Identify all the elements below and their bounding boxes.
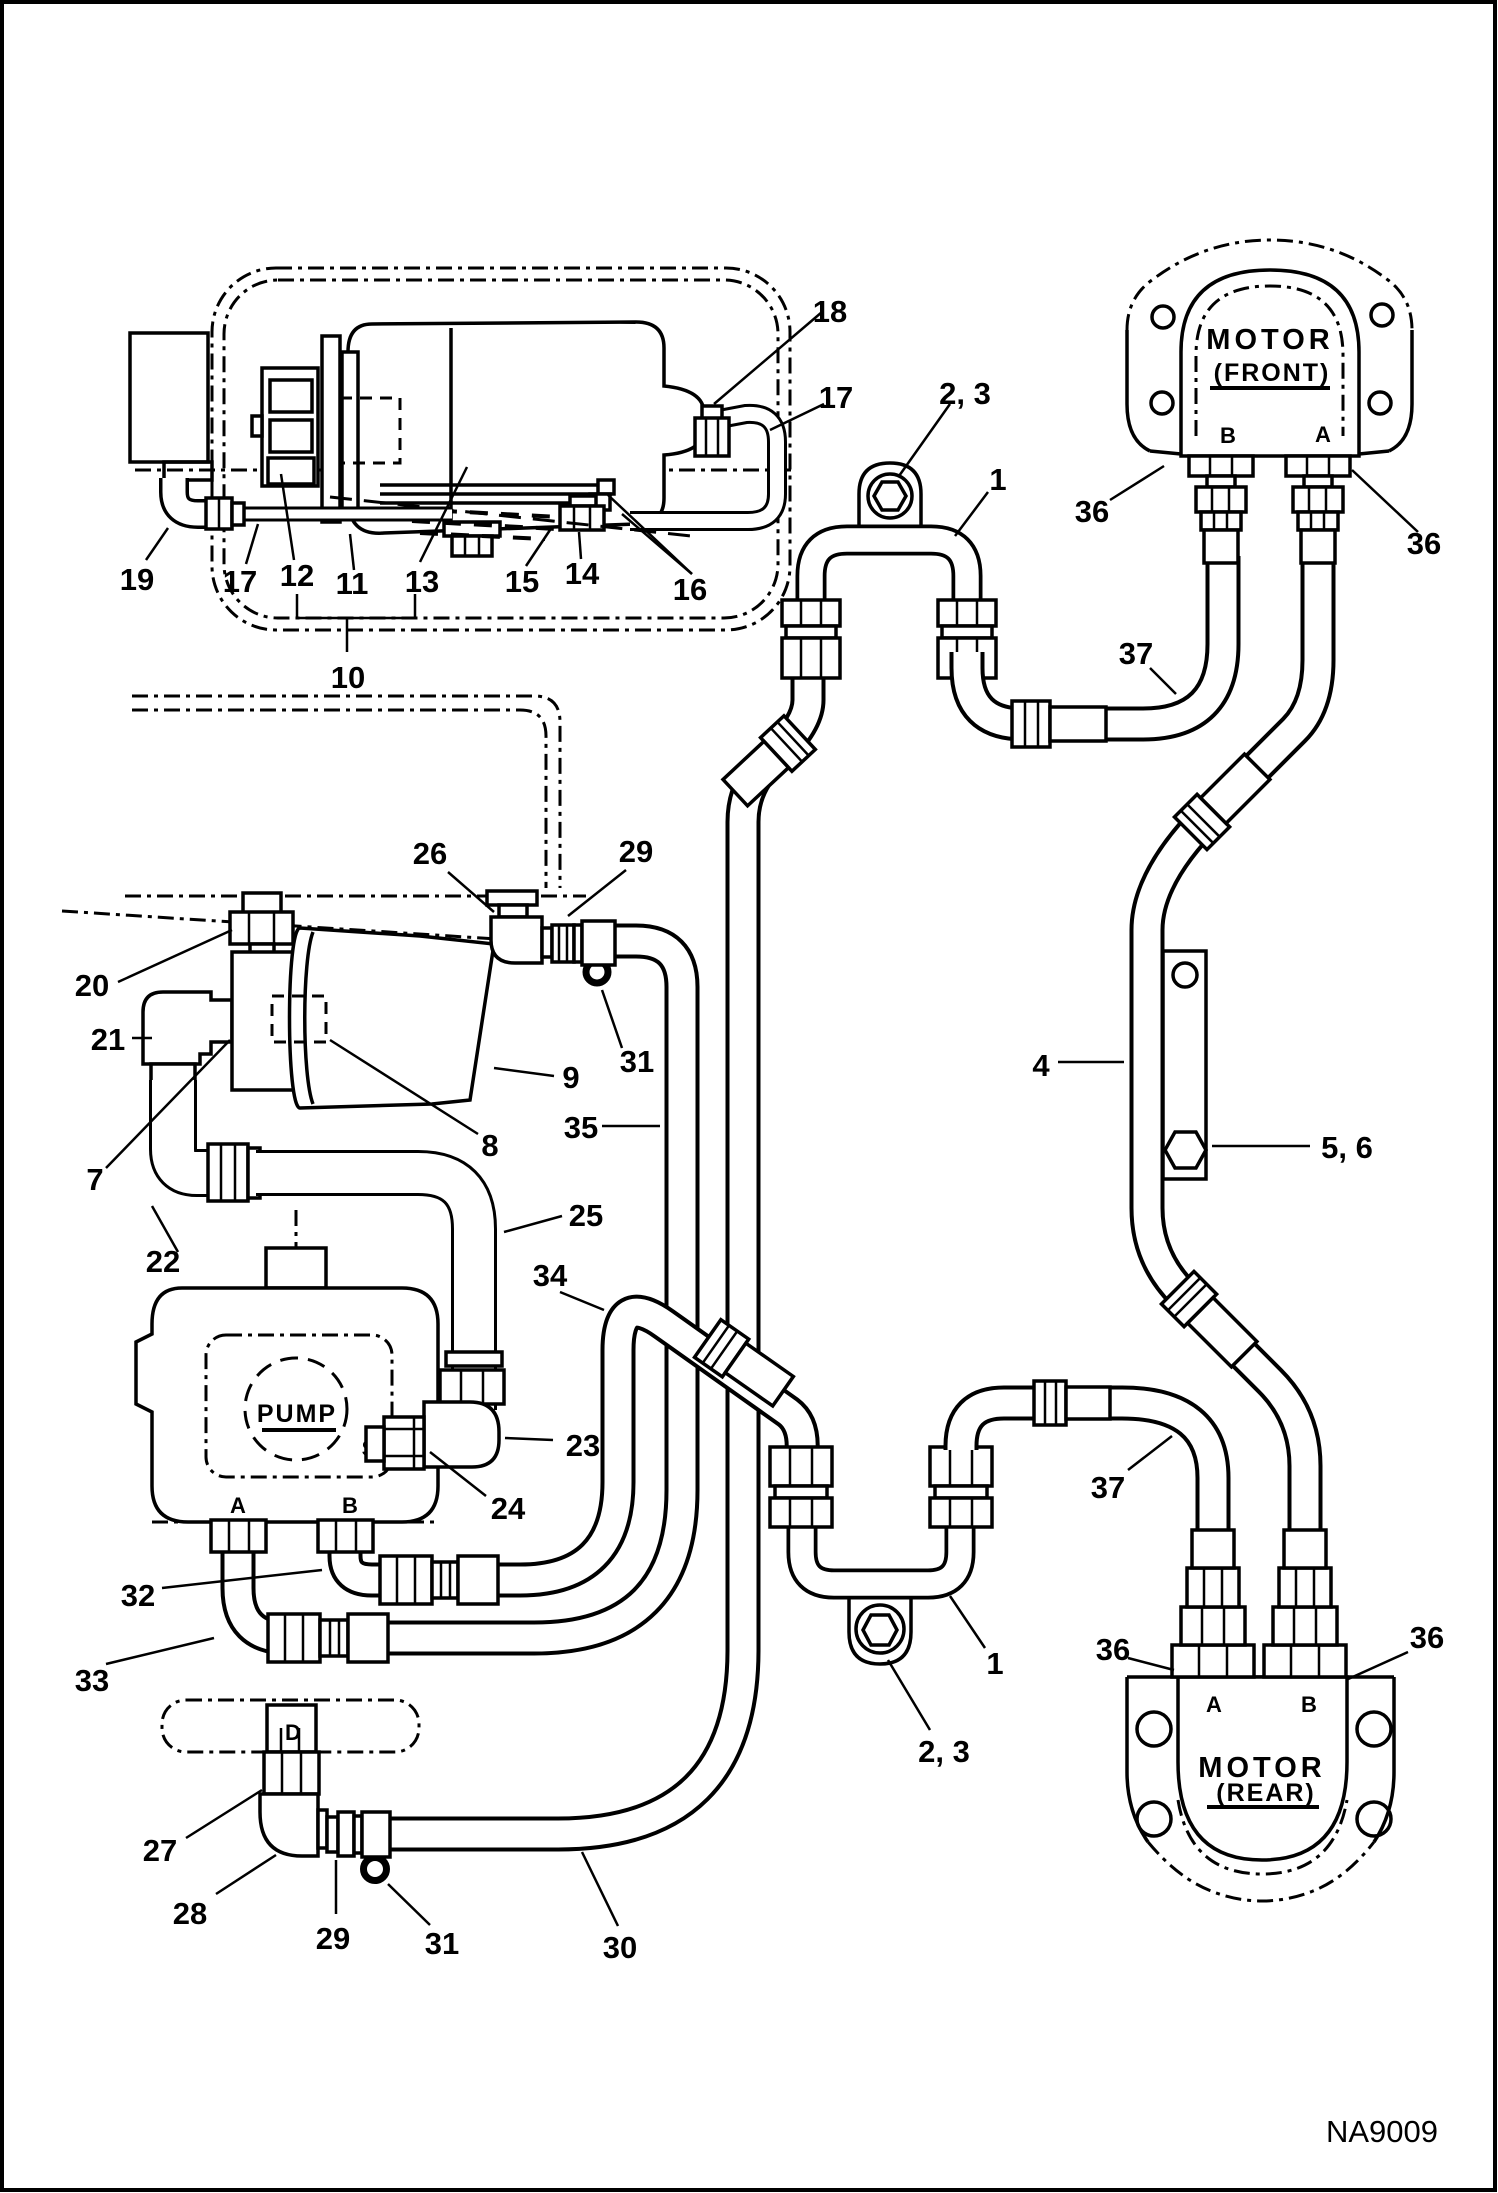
svg-text:17: 17: [819, 380, 853, 415]
leader 2 3 top: [899, 404, 950, 476]
svg-text:29: 29: [619, 834, 653, 869]
tank drain bolt: [444, 522, 500, 536]
collar on hose 37 top: [1012, 701, 1050, 747]
svg-text:26: 26: [413, 836, 447, 871]
hose 37 top from U-tube to front motor B: [967, 556, 1223, 724]
svg-text:A: A: [230, 1493, 246, 1518]
svg-text:16: 16: [673, 572, 707, 607]
phantom chassis outline around tank: [212, 268, 790, 630]
pump bottom dash-dot: [152, 1521, 438, 1524]
leader 17 right: [770, 404, 824, 430]
hex fittings on hose 32: [380, 1556, 432, 1604]
svg-text:30: 30: [603, 1930, 637, 1965]
leader 13: [420, 467, 467, 562]
svg-text:4: 4: [1032, 1048, 1050, 1083]
leader 25: [504, 1216, 562, 1232]
fitting 24 at S port: [384, 1417, 424, 1469]
leader 31 top: [602, 990, 622, 1048]
top U-tube left leg fittings: [782, 600, 840, 626]
front motor flange: [1127, 330, 1150, 451]
svg-text:36: 36: [1075, 494, 1109, 529]
top U-tube right leg fittings: [938, 600, 996, 626]
leader 28: [216, 1855, 276, 1894]
svg-text:B: B: [1220, 423, 1236, 448]
crimp collar on hose 4 bottom: [1161, 1271, 1260, 1370]
dashed rect 8: [272, 996, 326, 1042]
leader 36 rear left: [1128, 1658, 1174, 1670]
svg-text:A: A: [1206, 1692, 1222, 1717]
svg-text:25: 25: [569, 1198, 603, 1233]
pump dashed circle: [245, 1358, 347, 1460]
hex fitting on tube 17: [206, 498, 232, 529]
bolt 5 6: [1165, 1132, 1206, 1168]
leader 31 bottom: [388, 1884, 430, 1925]
phantom frame below tank: [132, 696, 560, 888]
leader 23: [505, 1438, 553, 1440]
elbow 19: [174, 478, 210, 514]
svg-text:36: 36: [1407, 526, 1441, 561]
leader 15: [526, 527, 552, 566]
tube 17 left: [240, 507, 452, 522]
rear flange bolt holes: [1137, 1712, 1171, 1746]
leader 26: [448, 872, 494, 912]
svg-text:(FRONT): (FRONT): [1214, 359, 1331, 387]
filter body 9: [290, 928, 495, 1108]
leader 18: [714, 312, 822, 404]
tank seam line: [449, 328, 453, 528]
hose 35 33 from fitting 31 to pump port A: [238, 941, 682, 1638]
hose 25 filter to S-port: [256, 1173, 474, 1410]
svg-text:23: 23: [566, 1428, 600, 1463]
svg-text:7: 7: [86, 1162, 103, 1197]
leader 1 bottom: [950, 1596, 985, 1648]
leader 36 front left: [1110, 466, 1164, 500]
svg-text:34: 34: [533, 1258, 568, 1293]
pump port B hex: [318, 1520, 373, 1552]
fitting 29 at D: [327, 1817, 338, 1852]
svg-text:21: 21: [91, 1022, 125, 1057]
svg-text:32: 32: [121, 1578, 155, 1613]
svg-text:31: 31: [425, 1926, 459, 1961]
D port fitting 27 stem: [267, 1705, 316, 1752]
front port A fitting stack 36: [1286, 456, 1350, 476]
tank 11 body: [348, 322, 704, 533]
leader 16 b: [622, 514, 692, 574]
bracket 5 6 plate: [1163, 951, 1206, 1179]
svg-text:NA9009: NA9009: [1326, 2114, 1438, 2149]
dashed rect 13: [340, 398, 400, 463]
pump face dash-dot: [206, 1335, 392, 1477]
leader 27: [186, 1790, 262, 1838]
leader 4: [1058, 1061, 1124, 1064]
front port B fitting stack 36: [1189, 456, 1253, 476]
dashed D box: [162, 1700, 419, 1752]
crimp collar on hose 4 top: [1174, 751, 1273, 850]
leader 17 bottom: [246, 524, 258, 564]
leader 20: [118, 930, 232, 982]
elbow 28: [260, 1794, 318, 1856]
leader 29 top: [568, 870, 626, 916]
leader 22: [152, 1206, 178, 1252]
hose 32 34 pump port B to bottom U-tube left leg: [345, 1312, 802, 1580]
svg-text:24: 24: [491, 1491, 526, 1526]
front motor dome: [1181, 270, 1359, 456]
svg-text:37: 37: [1091, 1470, 1125, 1505]
svg-text:13: 13: [405, 564, 439, 599]
fitting 29 at filter: [552, 925, 574, 962]
hex fitting 22: [208, 1144, 248, 1201]
leader 12: [281, 474, 294, 560]
svg-text:12: 12: [280, 558, 314, 593]
bottom U-tube right leg fittings: [930, 1447, 992, 1486]
nut 2 3 bottom: [856, 1605, 904, 1653]
svg-text:5, 6: 5, 6: [1321, 1130, 1373, 1165]
leader 37 top: [1150, 668, 1176, 694]
fitting 18: [702, 406, 722, 420]
leader 34: [560, 1292, 604, 1310]
leader 1 top: [955, 492, 988, 536]
clamp 31 at D: [364, 1858, 387, 1881]
svg-text:27: 27: [143, 1833, 177, 1868]
svg-text:17: 17: [223, 564, 257, 599]
elbow 21 and tube to elbow 22: [143, 992, 232, 1064]
svg-text:1: 1: [986, 1646, 1003, 1681]
svg-text:29: 29: [316, 1921, 350, 1956]
bottom U-tube 1: [849, 1595, 911, 1664]
bracket for 10: [297, 594, 415, 652]
leader 8: [330, 1040, 478, 1134]
pump body: [136, 1288, 438, 1522]
crimp collar on hose 30: [720, 716, 816, 810]
collar on hose 37 bottom: [1034, 1381, 1066, 1425]
svg-text:14: 14: [565, 556, 600, 591]
svg-text:11: 11: [336, 566, 369, 601]
leader 24: [430, 1452, 486, 1496]
filter fitting 20 stem: [243, 893, 281, 915]
svg-text:36: 36: [1096, 1632, 1130, 1667]
leader 2 3 bottom: [888, 1660, 930, 1730]
rear port B fitting stack 36: [1264, 1645, 1346, 1677]
bottom U-tube left leg fittings: [770, 1447, 832, 1486]
svg-text:19: 19: [120, 562, 154, 597]
leader 19: [146, 528, 168, 560]
leader 35: [602, 1125, 660, 1128]
svg-text:20: 20: [75, 968, 109, 1003]
leader 36 front right: [1352, 470, 1418, 532]
tank bottom plates 15 16: [380, 483, 612, 487]
leader 37 bottom: [1128, 1436, 1172, 1470]
hose 37 bottom from U-tube to rear motor A: [961, 1403, 1213, 1534]
svg-text:(REAR): (REAR): [1216, 1779, 1316, 1807]
bolt 14: [570, 496, 596, 506]
svg-text:22: 22: [146, 1244, 180, 1279]
svg-text:35: 35: [564, 1110, 598, 1145]
leader 5 6: [1212, 1145, 1310, 1148]
hose 4 front motor A to rear motor B: [1147, 556, 1318, 1534]
svg-text:2, 3: 2, 3: [918, 1734, 970, 1769]
nut 2 3 top: [868, 474, 912, 518]
leader 32: [162, 1570, 322, 1588]
leader 36 rear right: [1346, 1652, 1408, 1680]
svg-text:2, 3: 2, 3: [939, 376, 991, 411]
tank bottom dashed hatch: [408, 509, 560, 539]
elbow 26: [487, 891, 537, 905]
leader 14: [579, 532, 581, 559]
rear motor flange: [1127, 1677, 1148, 1842]
hex fittings on hose 25: [446, 1352, 502, 1366]
leader 29 bottom: [335, 1860, 338, 1914]
leader 9: [494, 1068, 554, 1076]
leader 33: [106, 1638, 214, 1664]
rear motor dome: [1178, 1677, 1347, 1860]
svg-text:10: 10: [331, 660, 365, 695]
leader 16 a: [608, 495, 692, 574]
leader lines: [106, 312, 1418, 1926]
svg-text:A: A: [1315, 422, 1331, 447]
svg-text:9: 9: [562, 1060, 579, 1095]
elbow 23: [424, 1402, 499, 1467]
svg-text:36: 36: [1410, 1620, 1444, 1655]
filter head block 7: [232, 952, 296, 1090]
hose 17 right loop: [630, 414, 777, 521]
engine mount rect left of tank: [130, 333, 208, 462]
svg-text:B: B: [342, 1493, 358, 1518]
front flange bolt holes: [1152, 306, 1174, 328]
svg-text:1: 1: [989, 462, 1006, 497]
pump top neck: [295, 1210, 298, 1252]
svg-text:28: 28: [173, 1896, 207, 1931]
svg-text:18: 18: [813, 294, 847, 329]
svg-text:MOTOR: MOTOR: [1206, 324, 1333, 356]
top U-tube 1: [859, 463, 921, 532]
hex fittings on hose 33: [268, 1614, 320, 1662]
leader 21: [132, 1037, 152, 1040]
svg-text:PUMP: PUMP: [257, 1400, 337, 1428]
svg-text:15: 15: [505, 564, 539, 599]
svg-text:D: D: [285, 1720, 301, 1745]
leader 30: [582, 1852, 618, 1926]
tank filler cap 12: [322, 336, 340, 522]
crimp collar on hose 34: [694, 1320, 796, 1410]
svg-text:33: 33: [75, 1663, 109, 1698]
svg-text:8: 8: [481, 1128, 498, 1163]
rear port A fitting stack 36: [1172, 1645, 1254, 1677]
leader 7: [106, 1040, 230, 1168]
svg-text:B: B: [1301, 1692, 1317, 1717]
leader 11: [350, 534, 354, 570]
pump port A hex: [211, 1520, 266, 1552]
clamp 31 at filter: [586, 961, 608, 983]
part number labels: [75, 294, 1444, 2149]
hose 30 from top U-tube left leg to D port: [390, 676, 808, 1834]
phantom frame at filter level: [125, 895, 586, 898]
phantom centerline through tank: [135, 469, 792, 472]
svg-text:31: 31: [620, 1044, 654, 1079]
svg-text:37: 37: [1119, 636, 1153, 671]
